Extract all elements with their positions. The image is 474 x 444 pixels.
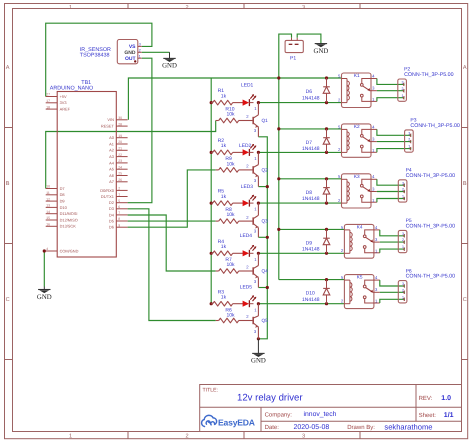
svg-text:Q2: Q2 bbox=[262, 168, 269, 173]
svg-text:4: 4 bbox=[46, 247, 48, 251]
svg-text:D6: D6 bbox=[109, 225, 114, 230]
svg-text:2: 2 bbox=[139, 48, 141, 52]
svg-text:CONN-TH_3P-P5.00: CONN-TH_3P-P5.00 bbox=[406, 173, 456, 179]
svg-text:1: 1 bbox=[118, 193, 120, 197]
svg-text:P1: P1 bbox=[290, 56, 296, 62]
svg-text:K4: K4 bbox=[357, 225, 363, 230]
svg-text:LED5: LED5 bbox=[240, 285, 253, 291]
ground below Arduino bbox=[37, 287, 52, 301]
svg-text:Date:: Date: bbox=[265, 424, 280, 431]
svg-text:CONN-TH_3P-P5.00: CONN-TH_3P-P5.00 bbox=[410, 123, 460, 129]
wire 12V from P1 down to rail bus bbox=[279, 34, 292, 78]
svg-text:3: 3 bbox=[408, 131, 410, 135]
connector P6 CONN-TH_3P-P5.00 bbox=[398, 268, 455, 303]
svg-text:2: 2 bbox=[402, 238, 404, 242]
diode D7 1N4148 bbox=[302, 129, 330, 153]
svg-text:1N4148: 1N4148 bbox=[302, 146, 320, 152]
transistor Q5 bbox=[246, 304, 268, 339]
wire 12V rail channel 3 bbox=[279, 178, 342, 180]
svg-text:10k: 10k bbox=[227, 262, 236, 268]
svg-text:B: B bbox=[463, 181, 467, 187]
svg-text:3: 3 bbox=[402, 181, 404, 185]
svg-text:A4: A4 bbox=[109, 160, 115, 165]
relay K4 bbox=[341, 224, 380, 258]
junction diode top channel 4 bbox=[325, 228, 328, 231]
svg-text:A5: A5 bbox=[109, 167, 114, 172]
svg-text:D10: D10 bbox=[306, 291, 315, 297]
rev cell bbox=[419, 395, 452, 402]
svg-text:TITLE:: TITLE: bbox=[203, 388, 219, 394]
junction 12V bus rail channel 2 bbox=[277, 127, 280, 130]
junction LED feed bus channel 1 bbox=[210, 101, 213, 104]
junction diode bottom channel 2 bbox=[325, 151, 328, 154]
svg-text:A2: A2 bbox=[109, 148, 114, 153]
resistor R9 10k bbox=[216, 156, 253, 172]
junction 12V bus rail channel 3 bbox=[277, 177, 280, 180]
svg-text:VIN: VIN bbox=[107, 117, 114, 122]
svg-text:D13/SCK: D13/SCK bbox=[60, 224, 77, 229]
svg-text:GND: GND bbox=[251, 358, 266, 365]
connector P2 CONN-TH_3P-P5.00 bbox=[398, 67, 454, 102]
svg-text:2020-05-08: 2020-05-08 bbox=[294, 424, 330, 431]
svg-text:10k: 10k bbox=[227, 212, 236, 218]
junction Arduino COM/GND pin bbox=[43, 249, 46, 252]
svg-text:2: 2 bbox=[402, 288, 404, 292]
svg-text:28: 28 bbox=[118, 122, 122, 126]
svg-text:10k: 10k bbox=[227, 112, 236, 118]
junction LED feed bus channel 5 bbox=[210, 302, 213, 305]
svg-text:2: 2 bbox=[185, 5, 188, 11]
resistor R8 10k bbox=[216, 207, 253, 224]
svg-text:2: 2 bbox=[402, 188, 404, 192]
svg-text:K1: K1 bbox=[354, 73, 360, 78]
svg-text:22: 22 bbox=[118, 153, 122, 157]
svg-text:3: 3 bbox=[402, 282, 404, 286]
junction LED cathode node channel 5 bbox=[257, 302, 260, 305]
wire relay K3 pin3 to P4 bbox=[377, 191, 405, 193]
wire 12V rail channel 1 bbox=[128, 78, 341, 120]
svg-text:D12/MISO: D12/MISO bbox=[60, 217, 78, 222]
LED LED2 bbox=[239, 143, 256, 156]
svg-text:1: 1 bbox=[402, 245, 404, 249]
resistor R6 10k bbox=[216, 307, 253, 322]
wire Q3 emitter to emitter bus bbox=[258, 236, 267, 238]
diode D6 1N4148 bbox=[302, 78, 330, 103]
connector P5 CONN-TH_3P-P5.00 bbox=[398, 218, 455, 253]
wire relay coil line channel 5 bbox=[258, 303, 344, 305]
wire relay coil line channel 1 bbox=[258, 102, 341, 104]
junction diode top channel 5 bbox=[325, 278, 328, 281]
svg-text:Company:: Company: bbox=[265, 411, 293, 418]
transistor Q1 bbox=[246, 103, 268, 137]
wire 12V rail channel 2 bbox=[279, 128, 342, 130]
svg-text:2: 2 bbox=[402, 87, 404, 91]
svg-text:D8: D8 bbox=[306, 190, 313, 196]
svg-text:CONN-TH_3P-P5.00: CONN-TH_3P-P5.00 bbox=[406, 274, 456, 280]
svg-text:TSOP38438: TSOP38438 bbox=[80, 53, 110, 59]
svg-text:1N4148: 1N4148 bbox=[302, 196, 320, 202]
svg-text:1: 1 bbox=[139, 54, 141, 58]
svg-text:D9: D9 bbox=[60, 199, 65, 204]
wire Arduino D5 to channel-3 drive (R8) bbox=[128, 220, 216, 222]
wire +5V net (Arduino +5V to IR sensor VS) bbox=[46, 23, 152, 96]
wire 12V vertical bus bbox=[278, 78, 280, 280]
svg-text:D6: D6 bbox=[306, 89, 313, 95]
junction LED cathode node channel 1 bbox=[257, 101, 260, 104]
svg-text:EasyEDA: EasyEDA bbox=[218, 417, 255, 427]
svg-text:25: 25 bbox=[118, 172, 122, 176]
wire relay K3 pin4 to P4 bbox=[377, 179, 405, 185]
svg-text:A6: A6 bbox=[109, 173, 114, 178]
IR sensor TSOP38438 bbox=[80, 40, 142, 64]
svg-text:C: C bbox=[6, 297, 10, 303]
svg-text:A0: A0 bbox=[109, 135, 115, 140]
resistor R7 10k bbox=[216, 257, 253, 273]
svg-text:1N4148: 1N4148 bbox=[302, 297, 320, 303]
svg-text:27: 27 bbox=[46, 93, 50, 97]
svg-text:K3: K3 bbox=[354, 174, 360, 179]
resistor R2 1k bbox=[211, 138, 243, 155]
svg-text:24: 24 bbox=[118, 165, 122, 169]
relay K5 bbox=[341, 275, 380, 309]
resistor R1 1k bbox=[211, 88, 243, 105]
svg-text:3: 3 bbox=[402, 232, 404, 236]
sheet cell bbox=[419, 411, 454, 419]
svg-text:11: 11 bbox=[46, 191, 50, 195]
ground near IR sensor bbox=[162, 52, 177, 69]
svg-text:12: 12 bbox=[46, 197, 50, 201]
svg-text:1k: 1k bbox=[221, 295, 227, 301]
svg-text:A7: A7 bbox=[109, 179, 114, 184]
wire relay K2 pin3 to P3 bbox=[377, 141, 411, 143]
svg-text:D5: D5 bbox=[109, 218, 114, 223]
junction diode top channel 1 bbox=[325, 76, 328, 79]
svg-text:3: 3 bbox=[302, 5, 305, 11]
connector P1 bbox=[285, 38, 303, 62]
svg-text:23: 23 bbox=[118, 159, 122, 163]
svg-text:5: 5 bbox=[118, 199, 120, 203]
svg-text:1k: 1k bbox=[221, 244, 227, 250]
svg-text:sekharathome: sekharathome bbox=[384, 422, 432, 431]
svg-text:A: A bbox=[463, 65, 467, 71]
svg-text:19: 19 bbox=[118, 134, 122, 138]
svg-text:3: 3 bbox=[139, 43, 141, 47]
svg-text:C: C bbox=[463, 297, 467, 303]
ground near P1 bbox=[314, 43, 329, 55]
svg-text:1k: 1k bbox=[221, 93, 227, 99]
wire relay K5 pin3 to P6 bbox=[380, 291, 405, 293]
junction emitter bus channel 3 bbox=[266, 236, 269, 239]
svg-text:1: 1 bbox=[408, 145, 410, 149]
junction emitter bus to ground bbox=[257, 337, 260, 340]
date row bbox=[265, 422, 433, 431]
wire relay coil line channel 4 bbox=[258, 252, 344, 254]
svg-text:26: 26 bbox=[118, 178, 122, 182]
svg-text:B: B bbox=[6, 181, 10, 187]
wire P1 pin to ground symbol bbox=[297, 34, 321, 43]
svg-text:innov_tech: innov_tech bbox=[304, 411, 337, 418]
svg-text:Sheet:: Sheet: bbox=[419, 412, 437, 419]
connector P4 CONN-TH_3P-P5.00 bbox=[398, 168, 455, 203]
wire Arduino D4 to channel-4 drive (R7) bbox=[128, 215, 216, 271]
wire relay K2 pin1 to P3 bbox=[377, 149, 411, 153]
relay K2 bbox=[338, 124, 377, 157]
svg-text:1.0: 1.0 bbox=[441, 395, 451, 402]
junction diode bottom channel 1 bbox=[325, 101, 328, 104]
wire relay K2 pin4 to P3 bbox=[377, 129, 411, 135]
svg-text:D9: D9 bbox=[306, 240, 313, 246]
svg-text:REV:: REV: bbox=[419, 395, 433, 402]
diode D10 1N4148 bbox=[302, 280, 330, 304]
wire 12V rail channel 4 bbox=[279, 228, 345, 230]
svg-text:A: A bbox=[6, 65, 10, 71]
svg-text:18: 18 bbox=[46, 105, 50, 109]
svg-text:LED4: LED4 bbox=[240, 233, 253, 239]
wire relay coil line channel 3 bbox=[258, 202, 341, 204]
svg-text:COM/GND: COM/GND bbox=[60, 248, 79, 253]
wire relay K3 pin1 to P4 bbox=[377, 199, 405, 203]
svg-text:13: 13 bbox=[46, 204, 50, 208]
svg-text:K5: K5 bbox=[357, 275, 363, 280]
svg-text:10k: 10k bbox=[227, 313, 236, 319]
resistor R5 1k bbox=[211, 189, 243, 206]
transistor Q3 bbox=[246, 203, 268, 237]
svg-text:1/1: 1/1 bbox=[444, 411, 454, 419]
svg-text:8: 8 bbox=[118, 217, 120, 221]
svg-text:Q1: Q1 bbox=[262, 118, 269, 123]
junction diode bottom channel 3 bbox=[325, 202, 328, 205]
svg-text:LED1: LED1 bbox=[241, 82, 254, 88]
wire relay K5 pin4 to P6 bbox=[380, 280, 405, 286]
wire relay K1 pin1 to P2 bbox=[377, 98, 405, 102]
wire IR sensor OUT to Arduino D2 bbox=[128, 58, 152, 203]
svg-text:LED3: LED3 bbox=[241, 184, 254, 190]
wire LED feed vertical bus bbox=[210, 78, 212, 304]
title text bbox=[237, 392, 303, 403]
wire relay K4 pin3 to P5 bbox=[380, 241, 405, 243]
svg-text:1k: 1k bbox=[221, 143, 227, 149]
title block bbox=[200, 385, 462, 432]
junction LED feed bus channel 3 bbox=[210, 202, 213, 205]
junction 12V bus rail channel 4 bbox=[277, 228, 280, 231]
wire Q2 emitter to emitter bus bbox=[258, 186, 267, 188]
wire relay K4 pin4 to P5 bbox=[380, 230, 405, 236]
svg-text:2: 2 bbox=[408, 138, 410, 142]
wire 12V rail channel 5 bbox=[279, 279, 345, 281]
svg-text:ARDUINO_NANO: ARDUINO_NANO bbox=[50, 86, 93, 92]
svg-text:D0/RX0: D0/RX0 bbox=[100, 188, 114, 193]
transistor Q2 bbox=[246, 152, 268, 186]
wire Arduino D6 to channel-2 drive (R9) bbox=[128, 170, 216, 227]
svg-text:D8: D8 bbox=[60, 192, 65, 197]
wire relay K5 pin1 to P6 bbox=[380, 299, 405, 303]
LED LED5 bbox=[240, 285, 256, 308]
svg-text:12v relay driver: 12v relay driver bbox=[237, 392, 303, 403]
svg-text:K2: K2 bbox=[354, 124, 360, 129]
relay K3 bbox=[338, 174, 377, 208]
LED LED1 bbox=[241, 82, 256, 106]
resistor R10 10k bbox=[216, 106, 253, 123]
svg-text:OUT: OUT bbox=[125, 56, 136, 62]
junction diode bottom channel 5 bbox=[325, 302, 328, 305]
diode D9 1N4148 bbox=[302, 229, 330, 253]
svg-text:1: 1 bbox=[402, 295, 404, 299]
wire relay coil line channel 2 bbox=[258, 151, 341, 153]
svg-text:CONN-TH_3P-P5.00: CONN-TH_3P-P5.00 bbox=[406, 224, 456, 230]
svg-text:1k: 1k bbox=[221, 194, 227, 200]
svg-text:+5V: +5V bbox=[60, 94, 67, 99]
wire emitter bus bbox=[258, 137, 267, 339]
svg-text:Q4: Q4 bbox=[262, 269, 269, 274]
svg-text:GND: GND bbox=[162, 63, 177, 70]
ground bottom emitter bus bbox=[251, 339, 266, 365]
svg-text:2: 2 bbox=[185, 433, 188, 439]
svg-text:10k: 10k bbox=[227, 161, 236, 167]
connector P3 CONN-TH_3P-P5.00 bbox=[405, 118, 460, 153]
svg-text:GND: GND bbox=[37, 294, 52, 301]
Arduino Nano TB1 bbox=[46, 80, 128, 257]
junction diode top channel 2 bbox=[325, 127, 328, 130]
svg-text:LED2: LED2 bbox=[239, 143, 252, 149]
LED LED3 bbox=[241, 184, 256, 206]
svg-text:3: 3 bbox=[302, 433, 305, 439]
svg-text:CONN-TH_3P-P5.00: CONN-TH_3P-P5.00 bbox=[404, 72, 454, 78]
svg-text:6: 6 bbox=[118, 205, 120, 209]
svg-text:D10: D10 bbox=[60, 205, 68, 210]
svg-text:7: 7 bbox=[118, 211, 120, 215]
svg-text:21: 21 bbox=[118, 147, 122, 151]
svg-text:AREF: AREF bbox=[60, 107, 71, 112]
svg-text:D11/MOSI: D11/MOSI bbox=[60, 211, 78, 216]
company row bbox=[265, 411, 337, 418]
wire Q4 emitter to emitter bus bbox=[258, 287, 267, 289]
junction diode top channel 3 bbox=[325, 177, 328, 180]
junction LED cathode node channel 4 bbox=[257, 252, 260, 255]
svg-text:D7: D7 bbox=[60, 186, 65, 191]
junction LED cathode node channel 2 bbox=[257, 151, 260, 154]
svg-text:D4: D4 bbox=[109, 212, 115, 217]
svg-text:20: 20 bbox=[118, 140, 122, 144]
junction emitter bus channel 4 bbox=[266, 286, 269, 289]
junction diode bottom channel 4 bbox=[325, 252, 328, 255]
junction P1/rail/bus node bbox=[277, 76, 280, 79]
wire relay K4 pin1 to P5 bbox=[380, 249, 405, 253]
svg-text:1: 1 bbox=[402, 94, 404, 98]
svg-text:1N4148: 1N4148 bbox=[302, 247, 320, 253]
svg-text:3V3: 3V3 bbox=[60, 100, 67, 105]
svg-text:A3: A3 bbox=[109, 154, 114, 159]
svg-text:D7: D7 bbox=[306, 140, 313, 146]
svg-text:30: 30 bbox=[118, 116, 122, 120]
svg-text:D2: D2 bbox=[109, 200, 114, 205]
svg-text:17: 17 bbox=[46, 99, 50, 103]
svg-text:1: 1 bbox=[69, 433, 72, 439]
junction LED feed bus channel 2 bbox=[210, 151, 213, 154]
svg-text:A1: A1 bbox=[109, 141, 114, 146]
resistor R3 1k bbox=[211, 289, 243, 306]
svg-text:10: 10 bbox=[46, 185, 50, 189]
svg-text:RESET: RESET bbox=[101, 124, 115, 129]
svg-text:2: 2 bbox=[118, 187, 120, 191]
wire relay K1 pin4 to P2 bbox=[377, 79, 405, 85]
svg-text:15: 15 bbox=[46, 216, 50, 220]
EasyEDA logo bbox=[202, 415, 255, 427]
junction LED feed bus channel 4 bbox=[210, 252, 213, 255]
wire Arduino D3 to channel-5 drive (R6) bbox=[128, 209, 216, 321]
svg-text:14: 14 bbox=[46, 210, 50, 214]
wire Arduino COM/GND to ground symbol bbox=[43, 251, 45, 287]
relay K1 bbox=[338, 73, 377, 108]
svg-text:D1/TX1: D1/TX1 bbox=[101, 194, 114, 199]
diode D8 1N4148 bbox=[302, 179, 330, 203]
svg-text:9: 9 bbox=[118, 223, 120, 227]
junction LED cathode node channel 3 bbox=[257, 202, 260, 205]
svg-text:1: 1 bbox=[69, 5, 72, 11]
svg-text:GND: GND bbox=[314, 48, 329, 55]
svg-text:1N4148: 1N4148 bbox=[302, 95, 320, 101]
svg-text:Drawn By:: Drawn By: bbox=[347, 424, 375, 431]
junction emitter bus channel 2 bbox=[266, 185, 269, 188]
wire Arduino D7 to channel-1 drive (R10) bbox=[46, 121, 216, 189]
transistor Q4 bbox=[246, 253, 268, 287]
LED LED4 bbox=[240, 233, 256, 257]
svg-text:3: 3 bbox=[402, 81, 404, 85]
svg-text:D3: D3 bbox=[109, 206, 114, 211]
resistor R4 1k bbox=[211, 239, 243, 256]
svg-text:16: 16 bbox=[46, 223, 50, 227]
wire IR sensor GND pin to ground symbol bbox=[142, 51, 170, 53]
wire relay K1 pin3 to P2 bbox=[377, 90, 405, 92]
svg-text:Q5: Q5 bbox=[262, 318, 269, 323]
svg-text:1: 1 bbox=[402, 195, 404, 199]
svg-text:Q3: Q3 bbox=[262, 219, 269, 224]
